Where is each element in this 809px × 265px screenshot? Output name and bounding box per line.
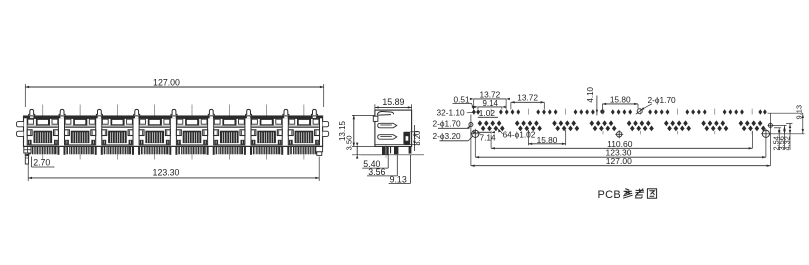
svg-text:64-ϕ1.02: 64-ϕ1.02 — [503, 129, 536, 139]
phi1.70 hole left — [469, 123, 473, 127]
glyph TU — [647, 189, 656, 198]
signal hole clusters — [478, 120, 483, 126]
svg-text:123.30: 123.30 — [153, 168, 180, 178]
glyph CAN — [623, 189, 632, 199]
dim 3.56 — [784, 125, 786, 150]
dim 127.00 top — [24, 84, 26, 107]
shell outline — [24, 116, 323, 146]
dim 4.10 — [596, 96, 598, 116]
svg-text:7.14: 7.14 — [480, 133, 497, 143]
dim 9.13 right — [802, 113, 804, 134]
dim 4.32 — [789, 123, 791, 150]
svg-text:3.20: 3.20 — [413, 130, 422, 146]
left tab — [373, 116, 378, 121]
svg-text:4.32: 4.32 — [782, 136, 791, 150]
board center mark — [617, 132, 622, 137]
svg-text:3.56: 3.56 — [368, 167, 385, 177]
svg-text:3.50: 3.50 — [345, 136, 354, 151]
svg-text:13.72: 13.72 — [517, 93, 538, 103]
svg-text:2-ϕ1.70: 2-ϕ1.70 — [648, 95, 677, 105]
left EMI finger tabs — [16, 122, 23, 127]
dim 127.00 — [470, 115, 472, 166]
svg-text:32-1.10: 32-1.10 — [437, 108, 466, 118]
dim 15.80 lower — [527, 130, 529, 145]
side view body — [375, 110, 412, 146]
dim 123.30 bottom — [27, 165, 29, 182]
shield finger slot 2 — [378, 135, 397, 140]
right side reference lines — [768, 112, 803, 114]
dim 2.54 — [778, 128, 780, 150]
glyph KAO — [635, 189, 644, 198]
shield finger slot 1 — [378, 123, 397, 128]
phi3.20 hole right — [762, 130, 769, 137]
dim 9.14 — [477, 107, 479, 109]
phi1.70 hole right — [768, 123, 772, 127]
svg-text:127.00: 127.00 — [606, 156, 632, 166]
shield slot holes top row — [472, 109, 476, 114]
svg-text:127.00: 127.00 — [153, 77, 180, 87]
svg-text:2-ϕ1.70: 2-ϕ1.70 — [433, 119, 462, 129]
dim 13.15 / 3.50 — [352, 114, 375, 116]
phi1.70 holes in top row — [600, 110, 604, 114]
dim 13.72 first — [473, 99, 475, 109]
svg-text:PCB: PCB — [598, 189, 622, 201]
seating line — [361, 154, 424, 156]
dim 110.60 — [490, 135, 492, 149]
RJ45 ports — [27, 118, 58, 144]
port centerlines — [42, 105, 44, 160]
svg-text:9.13: 9.13 — [795, 105, 804, 120]
right EMI finger tabs — [323, 122, 329, 127]
svg-text:9.14: 9.14 — [483, 99, 499, 108]
phi3.20 hole left — [472, 130, 479, 137]
svg-text:15.89: 15.89 — [382, 97, 404, 107]
top edge band — [24, 116, 323, 118]
svg-text:15.80: 15.80 — [610, 94, 631, 104]
left mounting leg — [24, 147, 31, 153]
right end step — [316, 147, 323, 152]
svg-text:2.70: 2.70 — [33, 158, 50, 168]
side view pins — [382, 146, 386, 154]
svg-text:2-ϕ3.20: 2-ϕ3.20 — [433, 131, 462, 141]
svg-text:1.02: 1.02 — [479, 108, 496, 118]
board lock peg — [403, 132, 410, 145]
svg-text:9.13: 9.13 — [390, 174, 407, 184]
shield ears on top edge — [30, 116, 33, 118]
dim 3.20 — [410, 131, 419, 133]
dim 13.72 second — [510, 102, 512, 109]
dim 123.30 — [474, 130, 476, 158]
dim 15.80 upper — [601, 104, 603, 110]
dim 7.14 — [477, 131, 491, 133]
dim 15.89 — [374, 104, 376, 110]
latch lever — [377, 111, 393, 115]
bottom pin comb — [32, 147, 33, 154]
body inner bottom line — [375, 144, 412, 146]
svg-text:15.80: 15.80 — [537, 135, 558, 145]
svg-text:4.10: 4.10 — [586, 86, 595, 102]
